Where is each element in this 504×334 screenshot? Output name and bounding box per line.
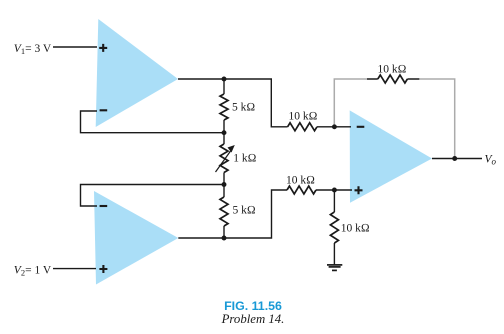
svg-text:10 kΩ: 10 kΩ — [341, 222, 370, 234]
svg-text:FIG. 11.56: FIG. 11.56 — [224, 299, 282, 313]
svg-text:1 kΩ: 1 kΩ — [233, 153, 256, 165]
svg-text:10 kΩ: 10 kΩ — [378, 63, 407, 75]
svg-text:10 kΩ: 10 kΩ — [289, 110, 318, 122]
svg-text:V2= 1 V: V2= 1 V — [14, 264, 52, 277]
svg-text:Vo: Vo — [485, 153, 497, 166]
svg-text:Problem 14.: Problem 14. — [221, 312, 285, 326]
svg-text:5 kΩ: 5 kΩ — [233, 205, 256, 217]
svg-text:5 kΩ: 5 kΩ — [232, 102, 255, 114]
svg-text:10 kΩ: 10 kΩ — [286, 175, 315, 187]
svg-text:V1= 3 V: V1= 3 V — [14, 43, 52, 56]
